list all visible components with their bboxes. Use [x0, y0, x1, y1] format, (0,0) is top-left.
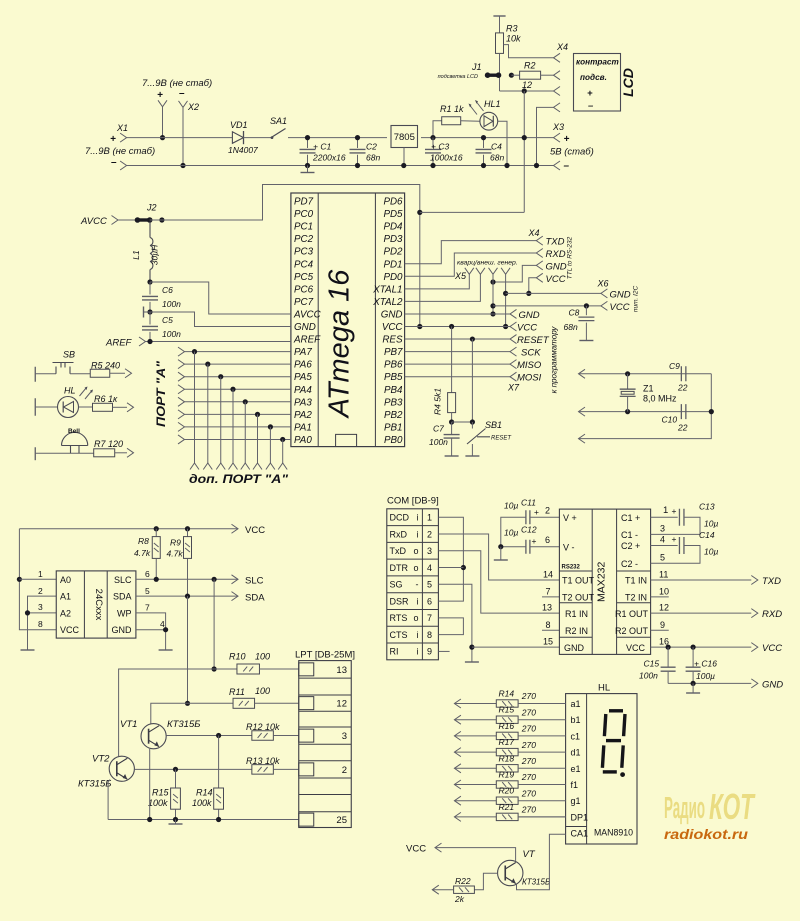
svg-text:6: 6: [545, 535, 550, 545]
svg-text:12: 12: [336, 699, 347, 710]
junction PA2 branch: [255, 412, 260, 417]
connector aux port PA3 arrow: [241, 463, 250, 470]
svg-text:VT: VT: [523, 849, 536, 860]
wire R6 out: [113, 406, 127, 408]
wire LCD plus row: [500, 90, 554, 92]
junction X5-4 vcc row: [503, 324, 508, 329]
svg-text:c1: c1: [571, 731, 581, 741]
junction slc down: [212, 577, 217, 582]
junction C16 gnd: [691, 681, 696, 686]
connector AVCC arrow: [112, 216, 119, 225]
connector port A pin PA7 arrow: [178, 347, 185, 356]
junction X2- on minus rail: [180, 163, 185, 168]
svg-text:GND: GND: [762, 679, 783, 690]
svg-text:8: 8: [38, 619, 43, 629]
connector MISO arrow: [510, 360, 517, 369]
svg-text:PC2: PC2: [294, 234, 314, 245]
connector X4 RXD arrow: [536, 249, 543, 258]
wire RI stub: [438, 650, 449, 652]
svg-text:100: 100: [255, 686, 270, 696]
connector X3 - arrow: [554, 161, 561, 170]
svg-text:SLC: SLC: [114, 575, 132, 585]
junction R15 top: [173, 767, 178, 772]
svg-text:WP: WP: [117, 608, 132, 618]
switch SA1: [271, 129, 286, 138]
wire R4 bottom: [451, 413, 453, 422]
connector X5 pin1 arrow: [465, 268, 474, 275]
wire HL to R6: [79, 406, 93, 408]
resistor R2: [520, 71, 541, 79]
ground below C8: [579, 340, 593, 342]
connector aux port PA6 arrow: [203, 463, 212, 470]
wire PA4: [185, 388, 291, 390]
crystal Z1: [627, 374, 629, 389]
svg-text:4: 4: [427, 563, 432, 573]
wire VT2 emitter: [108, 780, 110, 820]
connector aux port PA2 arrow: [253, 463, 262, 470]
connector X2 pin+ arrow: [158, 100, 167, 107]
wire segment b1 left: [454, 719, 496, 721]
svg-text:22: 22: [677, 383, 688, 393]
svg-text:PB4: PB4: [384, 385, 403, 396]
wire VT emitter to CA1: [517, 834, 566, 889]
svg-text:270: 270: [521, 805, 536, 815]
resistor R14: [496, 700, 518, 707]
junction J2 right: [159, 217, 164, 222]
wire PA3: [185, 401, 291, 403]
wire R1OUT to RXD: [651, 612, 752, 614]
wire C12 node to gnd: [500, 547, 502, 560]
svg-text:g1: g1: [571, 796, 581, 806]
svg-text:GND: GND: [546, 261, 567, 272]
node R2 left terminal: [509, 73, 514, 78]
svg-text:GND: GND: [112, 625, 133, 635]
capacitor C10: [681, 404, 686, 419]
transistor VT: [498, 860, 523, 885]
svg-text:d1: d1: [571, 748, 581, 758]
junction PA1 branch: [268, 424, 273, 429]
svg-text:VCC: VCC: [517, 323, 537, 334]
wire GND pin row: [136, 629, 166, 631]
svg-text:VCC: VCC: [546, 274, 566, 285]
svg-text:C2 -: C2 -: [621, 559, 638, 569]
junction SB1 top: [470, 419, 475, 424]
svg-text:R8: R8: [138, 536, 149, 546]
svg-text:10: 10: [659, 587, 669, 597]
wire PA0: [185, 438, 291, 440]
svg-text:270: 270: [521, 788, 536, 798]
svg-text:i: i: [417, 529, 419, 539]
svg-text:T1 IN: T1 IN: [625, 576, 647, 586]
junction R14 top: [216, 733, 221, 738]
svg-text:PD1: PD1: [383, 259, 402, 270]
junction L1 bottom: [147, 279, 152, 284]
wire X6 VCC row: [493, 305, 601, 307]
connector X4 LCD pin4 arrow: [554, 103, 561, 112]
junction C15 top: [666, 645, 671, 650]
svg-text:X4: X4: [528, 228, 540, 238]
svg-text:VCC: VCC: [60, 625, 80, 635]
svg-text:C14: C14: [699, 530, 715, 540]
connector VCC arrow mcu: [510, 322, 517, 331]
svg-text:DCD: DCD: [390, 512, 410, 522]
junction R10 node: [212, 666, 217, 671]
resistor R4: [448, 393, 456, 413]
junction C16 top: [691, 645, 696, 650]
wire input plus rail: [127, 137, 233, 139]
svg-text:RTS: RTS: [390, 613, 408, 623]
svg-text:2: 2: [38, 586, 43, 596]
svg-text:RxD: RxD: [390, 529, 408, 539]
ground below SG: [465, 661, 479, 663]
svg-text:R3: R3: [506, 24, 518, 34]
junction +5 feed: [417, 210, 422, 215]
wire DP1 pin stub: [518, 816, 566, 818]
wire R22 to VT base: [474, 873, 497, 890]
svg-text:J2: J2: [146, 203, 157, 213]
svg-text:R10: R10: [229, 652, 246, 662]
svg-text:V -: V -: [563, 542, 575, 552]
svg-text:VCC: VCC: [245, 525, 265, 536]
ground below C12: [494, 559, 508, 561]
capacitor C3: [432, 138, 434, 148]
capacitor C9: [681, 366, 686, 381]
svg-text:270: 270: [521, 724, 536, 734]
wire SG to MAX gnd: [472, 646, 560, 648]
ground below A1A2: [21, 649, 35, 651]
svg-text:PC6: PC6: [294, 284, 314, 295]
wire RTS-CTS tie: [438, 618, 463, 635]
wire PA5: [185, 376, 291, 378]
svg-text:30µH: 30µH: [150, 244, 160, 265]
capacitor C1: [307, 138, 309, 148]
svg-text:PA1: PA1: [294, 422, 312, 433]
svg-text:HL1: HL1: [484, 99, 501, 109]
wire R3 wiper to LCD contrast: [504, 45, 554, 58]
svg-text:68n: 68n: [490, 153, 504, 163]
svg-text:1000x16: 1000x16: [430, 153, 463, 163]
connector X2 pin- arrow: [179, 101, 188, 108]
svg-text:3: 3: [427, 546, 432, 556]
svg-text:MAX232: MAX232: [596, 562, 608, 602]
wire segment d1 right: [518, 751, 566, 753]
svg-text:270: 270: [521, 740, 536, 750]
junction PA6 branch: [205, 362, 210, 367]
wire VT1 emitter: [149, 749, 151, 820]
wire left rail down: [19, 529, 56, 630]
transistor VT2: [109, 756, 134, 781]
svg-text:PC3: PC3: [294, 247, 314, 258]
resistor R15: [171, 788, 181, 809]
svg-text:11: 11: [659, 570, 668, 580]
svg-text:HL: HL: [64, 386, 76, 396]
svg-text:X6: X6: [597, 279, 609, 289]
svg-text:PA3: PA3: [294, 397, 312, 408]
svg-text:AVCC: AVCC: [293, 309, 322, 320]
svg-text:J1: J1: [471, 62, 482, 72]
wire R15 pullup: [175, 769, 177, 788]
capacitor C5: [149, 312, 151, 325]
junction X4gnd on X5-3: [490, 279, 495, 284]
wire SLC to R10 node: [213, 579, 215, 669]
svg-text:270: 270: [521, 756, 536, 766]
junction R8 slc: [154, 577, 159, 582]
svg-text:SLC: SLC: [245, 576, 264, 587]
svg-text:-: -: [416, 580, 419, 590]
wire L1 to AVCC pin: [150, 282, 291, 314]
svg-text:R17: R17: [499, 737, 515, 747]
junction 7805 gnd: [401, 163, 406, 168]
svg-text:+ C3: + C3: [431, 142, 449, 152]
svg-text:1N4007: 1N4007: [228, 145, 258, 155]
svg-text:8: 8: [427, 630, 432, 640]
wire R14 bottom: [218, 809, 220, 819]
arrow VCC out: [751, 643, 758, 652]
wire SG down: [438, 584, 472, 662]
LCD module box: [574, 54, 621, 112]
svg-text:XTAL1: XTAL1: [372, 284, 402, 295]
svg-text:RES: RES: [382, 335, 403, 346]
svg-text:7: 7: [427, 613, 432, 623]
svg-text:R6 1к: R6 1к: [94, 394, 118, 404]
wire X5-3 down to GND row: [492, 274, 494, 314]
svg-text:100k: 100k: [192, 798, 212, 808]
wire RxD to T1OUT: [438, 534, 559, 580]
junction PA3 branch: [243, 399, 248, 404]
svg-text:A1: A1: [60, 592, 71, 602]
svg-text:DTR: DTR: [390, 563, 409, 573]
svg-text:R2: R2: [524, 61, 536, 71]
svg-text:PB0: PB0: [384, 435, 403, 446]
wire MCU GND row: [405, 313, 510, 315]
LPT pin 12 contact: [299, 697, 314, 710]
arrow VCC vt: [435, 843, 442, 852]
wire A1 A2 tie: [28, 596, 57, 650]
arrow R22 out: [432, 885, 439, 894]
svg-text:radiokot.ru: radiokot.ru: [664, 826, 749, 842]
svg-text:PC1: PC1: [294, 222, 313, 233]
svg-text:SG: SG: [390, 580, 403, 590]
svg-text:2: 2: [342, 765, 347, 776]
junction X5-3 gnd row: [490, 311, 495, 316]
wire segment g1 left: [454, 800, 496, 802]
svg-text:10µ: 10µ: [704, 519, 718, 529]
svg-text:9: 9: [660, 620, 665, 630]
svg-text:GND: GND: [564, 643, 585, 653]
wire MCU RES row: [405, 338, 510, 340]
connector X4 TXD arrow: [536, 236, 543, 245]
svg-text:13: 13: [336, 665, 347, 676]
junction left rail A0: [17, 577, 22, 582]
capacitor C11: [526, 510, 530, 524]
svg-text:PA6: PA6: [294, 360, 312, 371]
junction WP gnd: [163, 627, 168, 632]
connector port A pin PA0 arrow: [178, 435, 185, 444]
7seg digit: [609, 709, 623, 712]
svg-text:T2 OUT: T2 OUT: [562, 593, 595, 603]
svg-text:2200x16: 2200x16: [312, 153, 346, 163]
connector aux port PA1 arrow: [266, 463, 275, 470]
svg-text:PB1: PB1: [384, 422, 403, 433]
wire diode to switch: [244, 137, 272, 139]
svg-text:PD7: PD7: [294, 197, 314, 208]
svg-text:3: 3: [660, 524, 665, 534]
svg-text:14: 14: [543, 570, 553, 580]
wire X6 GND row: [506, 292, 601, 294]
svg-text:X4: X4: [556, 42, 568, 52]
wire T1IN to TXD: [651, 579, 752, 581]
svg-text:100n: 100n: [639, 671, 658, 681]
svg-text:1: 1: [38, 569, 43, 579]
svg-text:68n: 68n: [564, 322, 578, 332]
svg-text:+: +: [564, 134, 570, 145]
junction C1 top: [305, 135, 310, 140]
junction A2 tie: [25, 610, 30, 615]
resistor R14: [214, 788, 224, 809]
wire segment e1 left: [454, 767, 496, 769]
svg-text:PA7: PA7: [294, 347, 312, 358]
inductor L1: [150, 222, 153, 282]
svg-text:5: 5: [427, 580, 432, 590]
junction xtal right: [709, 409, 714, 414]
svg-text:o: o: [413, 546, 418, 556]
resistor R13: [252, 765, 274, 775]
wire X5-1 to XTAL1: [405, 274, 470, 289]
svg-text:SDA: SDA: [245, 592, 265, 603]
svg-text:4.7k: 4.7k: [134, 548, 151, 558]
arrow xtal row2: [579, 407, 586, 416]
wire PD0 to RXD: [405, 253, 537, 276]
wire MCU MISO row: [405, 363, 510, 365]
svg-text:a1: a1: [571, 699, 581, 709]
ground below C1: [307, 166, 309, 173]
junction reset branch: [470, 336, 475, 341]
svg-text:пит. I2C: пит. I2C: [633, 286, 640, 313]
junction C6/C5 node: [147, 309, 152, 314]
svg-text:PB2: PB2: [384, 410, 403, 421]
regulator 7805: [391, 126, 418, 148]
connector RESET arrow: [510, 335, 517, 344]
connector port A pin PA6 arrow: [178, 360, 185, 369]
connector X3 + arrow: [554, 133, 561, 142]
svg-text:SB1: SB1: [485, 420, 502, 430]
svg-text:25: 25: [336, 815, 347, 826]
wire xtal row1: [579, 373, 712, 375]
arrow segment e1 out: [454, 764, 461, 773]
connector aux port PA4 arrow: [229, 463, 238, 470]
svg-text:X3: X3: [552, 122, 564, 132]
junction C2 bottom: [355, 163, 360, 168]
svg-text:DSR: DSR: [390, 596, 410, 606]
svg-text:C4: C4: [491, 142, 502, 152]
svg-text:AREF: AREF: [105, 338, 133, 349]
svg-text:R22: R22: [455, 876, 471, 886]
svg-text:10µ: 10µ: [704, 547, 718, 557]
junction R4 top vcc: [449, 324, 454, 329]
capacitor C14: [651, 545, 678, 547]
capacitor C6: [149, 282, 151, 295]
resistor R7: [94, 449, 115, 457]
svg-text:подсв.: подсв.: [580, 73, 607, 82]
wire R2 to LCD: [541, 74, 554, 76]
svg-text:RXD: RXD: [546, 249, 566, 260]
svg-text:C10: C10: [662, 415, 678, 425]
svg-text:10µ: 10µ: [504, 528, 518, 538]
wire minus rail: [127, 165, 554, 167]
arrow R7 out: [127, 448, 134, 457]
arrow segment DP1 out: [454, 812, 461, 821]
svg-text:R14: R14: [499, 689, 515, 699]
svg-text:ПОРТ "А": ПОРТ "А": [156, 360, 168, 427]
wire PA0 down to aux port: [282, 439, 284, 463]
wire DCD-DTR-DSR tie: [438, 517, 463, 601]
junction PA4 branch: [230, 387, 235, 392]
arrow R5 out: [125, 369, 132, 378]
resistor R6: [93, 403, 113, 411]
connector port A pin PA2 arrow: [178, 410, 185, 419]
wire xtal right side: [579, 374, 712, 439]
connector XP1 LPT box: [299, 661, 352, 828]
wire X2+ to input rail: [162, 107, 164, 138]
svg-text:SA1: SA1: [270, 116, 287, 126]
svg-text:GND: GND: [294, 322, 316, 333]
junction LCD+ on 5V rail: [522, 135, 527, 140]
svg-text:1: 1: [427, 512, 432, 522]
svg-text:X2: X2: [187, 102, 199, 112]
capacitor C7: [451, 422, 453, 435]
svg-text:i: i: [417, 630, 419, 640]
svg-text:X5: X5: [454, 271, 467, 281]
svg-text:к программатору: к программатору: [550, 326, 559, 394]
svg-text:RS232: RS232: [562, 565, 581, 571]
wire PA2: [185, 413, 291, 415]
wire segment f1 right: [518, 784, 566, 786]
svg-text:i: i: [417, 647, 419, 657]
svg-text:6: 6: [145, 569, 150, 579]
svg-text:RESET: RESET: [517, 335, 550, 346]
svg-text:+: +: [532, 536, 537, 546]
svg-text:PB5: PB5: [384, 372, 403, 383]
wire R13 to LPT2: [273, 768, 298, 770]
svg-text:КОТ: КОТ: [709, 786, 756, 827]
svg-text:RXD: RXD: [762, 609, 782, 620]
svg-text:TxD: TxD: [390, 546, 407, 556]
svg-text:–: –: [588, 101, 594, 112]
svg-text:270: 270: [521, 772, 536, 782]
svg-text:C2: C2: [366, 142, 377, 152]
connector X6 VCC arrow: [601, 301, 608, 310]
svg-text:R2 IN: R2 IN: [565, 626, 588, 636]
svg-text:C11: C11: [521, 498, 536, 508]
svg-text:C2 +: C2 +: [621, 541, 640, 551]
wire PA1: [185, 426, 291, 428]
svg-text:R19: R19: [499, 770, 515, 780]
junction R9 top: [185, 526, 190, 531]
wire SB to R5: [70, 373, 90, 375]
svg-text:VCC: VCC: [762, 643, 782, 654]
arrow TXD out: [751, 576, 758, 585]
svg-text:PC0: PC0: [294, 209, 314, 220]
wire VCC to VT collector: [435, 848, 516, 861]
wire VCC out row: [651, 646, 752, 648]
svg-text:C1 +: C1 +: [621, 513, 640, 523]
LED HL emission arrows: [80, 388, 93, 400]
svg-text:68n: 68n: [366, 153, 380, 163]
wire PA3 down to aux port: [244, 402, 246, 463]
wire SDA to R11 node: [187, 596, 189, 703]
wire PA5 down to aux port: [220, 377, 222, 463]
resistor R20: [496, 797, 518, 804]
